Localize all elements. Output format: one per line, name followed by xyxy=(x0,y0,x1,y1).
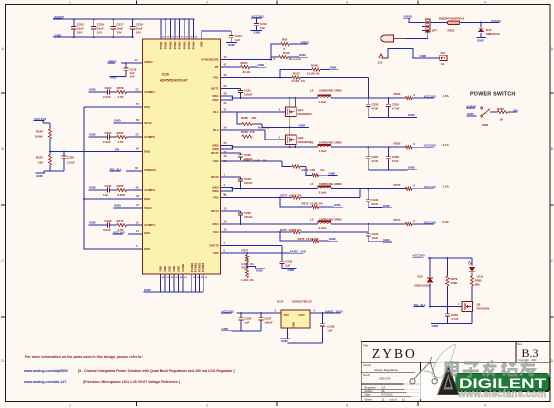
svg-text:R261: R261 xyxy=(448,29,455,33)
resistor R265 0 to VCC3V0 2.1A xyxy=(394,141,450,148)
capacitor C214 1uF xyxy=(226,31,242,47)
svg-text:2.3nF: 2.3nF xyxy=(103,95,111,99)
svg-text:R269: R269 xyxy=(117,184,124,188)
svg-text:47uF: 47uF xyxy=(372,159,379,163)
svg-text:GND: GND xyxy=(159,266,163,272)
svg-text:10uF: 10uF xyxy=(372,236,379,240)
svg-text:1uF: 1uF xyxy=(327,328,332,332)
svg-text:VIN: VIN xyxy=(284,313,289,317)
svg-text:GND: GND xyxy=(408,113,416,117)
node XADC_1V25 output xyxy=(310,309,343,314)
svg-text:8.87K: 8.87K xyxy=(118,193,127,197)
capacitor C233 3.9nF on COMP4 xyxy=(89,219,112,232)
capacitor C234 10uF xyxy=(366,224,392,242)
svg-text:BST2: BST2 xyxy=(211,151,219,155)
svg-text:11: 11 xyxy=(402,398,405,402)
svg-text:680: 680 xyxy=(475,283,480,287)
resistor R273 4.7K to COMP4 pin 15 xyxy=(110,219,143,232)
svg-text:GND: GND xyxy=(89,87,97,91)
svg-text:Power Regulation: Power Regulation xyxy=(375,368,399,372)
resistor R275 12.7K 1% FB4 sense xyxy=(221,224,369,234)
svg-text:R157: R157 xyxy=(293,72,300,76)
capacitor C224 2.3nF on COMP2 xyxy=(89,131,112,144)
diode D13 SMBJ5.0A xyxy=(477,23,502,43)
node VCC3V3 VDD supply xyxy=(251,14,264,23)
svg-text:22uF: 22uF xyxy=(372,202,379,206)
svg-text:VU5V2: VU5V2 xyxy=(491,19,501,23)
ground VCC3V3 caps xyxy=(368,113,417,117)
svg-text:47uF: 47uF xyxy=(372,107,379,111)
resistor R272 10.2K 1% to GND xyxy=(280,198,343,209)
svg-text:C230: C230 xyxy=(105,184,112,188)
svg-text:3.9nF: 3.9nF xyxy=(103,228,111,232)
svg-text:GND: GND xyxy=(420,54,428,58)
resistor R112 0 No Load to GND xyxy=(271,51,308,61)
svg-text:www.analog.com/adr-127: www.analog.com/adr-127 xyxy=(23,380,66,384)
svg-text:10V: 10V xyxy=(77,30,82,34)
svg-text:BST4: BST4 xyxy=(211,209,219,213)
svg-text:GND: GND xyxy=(292,322,296,328)
transistor Q1A FDS9926A xyxy=(286,98,313,117)
svg-text:4.7K: 4.7K xyxy=(118,95,125,99)
capacitor C237 100nF xyxy=(259,313,273,331)
svg-text:PGND4: PGND4 xyxy=(201,262,205,272)
svg-text:GND: GND xyxy=(467,112,475,116)
watermark chinese characters xyxy=(446,361,535,378)
svg-text:1.5uH: 1.5uH xyxy=(319,100,327,104)
svg-text:BST1: BST1 xyxy=(211,87,219,91)
resistor R269 8.87K to COMP3 pin 46 xyxy=(110,184,143,197)
svg-text:GND: GND xyxy=(89,220,97,224)
wire SYNC/MODE pin 43 node xyxy=(221,44,282,60)
resistor R258 4.7K to COMP1 pin 23 xyxy=(110,86,143,99)
capacitor C238 1uF xyxy=(288,313,335,343)
svg-text:10V: 10V xyxy=(136,30,141,34)
svg-text:Sheet: Sheet xyxy=(365,398,373,402)
wire DL1 pin 31 to Q1A gate xyxy=(221,108,286,113)
svg-text:R259: R259 xyxy=(394,92,401,96)
svg-text:ADP5052ACPZ-R7: ADP5052ACPZ-R7 xyxy=(160,79,188,83)
inductor L2 1.5uH xyxy=(310,89,342,104)
svg-text:1uF: 1uF xyxy=(260,26,265,30)
svg-text:4.7K: 4.7K xyxy=(118,140,125,144)
svg-text:2.2nF: 2.2nF xyxy=(67,161,75,165)
svg-text:10V: 10V xyxy=(116,30,121,34)
svg-text:EN2: EN2 xyxy=(144,150,150,154)
svg-text:GND: GND xyxy=(114,118,122,122)
svg-text:PGND3: PGND3 xyxy=(197,262,201,272)
node PG_ALL gate wire xyxy=(414,303,463,308)
capacitor C235 1uF xyxy=(280,253,297,272)
ground indicator circuit xyxy=(431,324,472,328)
svg-text:Date: Date xyxy=(365,393,371,397)
node PG_ALL on PWRGD pin 30 xyxy=(110,166,143,171)
svg-text:10.2K 1%: 10.2K 1% xyxy=(307,71,320,75)
logo triangle mark xyxy=(438,366,459,395)
svg-text:VOUT5: VOUT5 xyxy=(209,244,219,248)
svg-text:C226: C226 xyxy=(67,156,74,160)
svg-text:FDS9926A: FDS9926A xyxy=(298,112,313,116)
svg-text:2: 2 xyxy=(206,0,208,4)
svg-text:1uF: 1uF xyxy=(103,193,108,197)
svg-text:GND: GND xyxy=(477,38,485,42)
svg-text:R270: R270 xyxy=(394,183,401,187)
wire VOUT5 pin 7 xyxy=(221,241,283,253)
resistor R279 100K xyxy=(446,258,458,307)
svg-text:VCC3V3: VCC3V3 xyxy=(222,309,234,313)
capacitor C232 100nF on BST4 xyxy=(221,207,253,225)
inductor L3 1.5uH xyxy=(310,141,342,153)
svg-text:R264: R264 xyxy=(36,130,43,134)
svg-text:IC27: IC27 xyxy=(277,300,284,304)
svg-text:PVIN1: PVIN1 xyxy=(164,41,168,49)
IC IC26 ADP5052ACPZ-R7 quad buck regulator xyxy=(142,39,220,274)
svg-text:100nF: 100nF xyxy=(244,93,253,97)
ground J15 shield xyxy=(378,48,437,64)
svg-text:COMP4: COMP4 xyxy=(144,223,155,227)
svg-text:DL2: DL2 xyxy=(213,128,219,132)
wire Q1 midpoint to GND xyxy=(262,117,309,129)
resistor R262 47K on DL2 pin 29 xyxy=(221,126,286,140)
svg-text:R273: R273 xyxy=(117,219,124,223)
wire L2 output to VCC3V3 xyxy=(331,97,405,99)
svg-text:4.7uF: 4.7uF xyxy=(451,317,459,321)
ground SS34 pin 47 xyxy=(114,203,143,208)
svg-text:3: 3 xyxy=(346,404,348,408)
svg-text:OUT: OUT xyxy=(299,313,306,317)
svg-text:PGND2: PGND2 xyxy=(194,262,198,272)
svg-text:EN: EN xyxy=(115,147,119,151)
watermark compass ghost xyxy=(404,344,457,400)
capacitor C236 1uF xyxy=(239,313,252,331)
svg-text:VDD: VDD xyxy=(200,41,204,47)
svg-text:FB5: FB5 xyxy=(213,251,219,255)
wire SW3 switch node xyxy=(221,183,318,196)
switch SW6 power switch xyxy=(466,104,498,127)
svg-text:500-279: 500-279 xyxy=(379,377,390,381)
svg-text:4: 4 xyxy=(484,404,486,408)
svg-text:GND: GND xyxy=(329,237,337,241)
connector J16 net tie xyxy=(437,51,447,66)
svg-text:GND: GND xyxy=(281,339,289,343)
svg-text:PVIN3: PVIN3 xyxy=(178,41,182,49)
svg-text:R112: R112 xyxy=(283,51,290,55)
svg-text:GND: GND xyxy=(222,327,230,331)
svg-text:R272 10.2K 1%: R272 10.2K 1% xyxy=(302,202,324,206)
svg-text:Doc#: Doc# xyxy=(363,373,370,377)
svg-text:R260 47K: R260 47K xyxy=(241,116,257,120)
svg-text:BST3: BST3 xyxy=(211,175,219,179)
wire L4 output to VCC1V5 xyxy=(331,188,405,190)
svg-text:D15: D15 xyxy=(418,274,424,278)
svg-text:R263: R263 xyxy=(497,107,504,111)
resistor R276 10.2K 1% to GND xyxy=(280,232,338,243)
svg-text:out of: out of xyxy=(390,398,397,402)
svg-text:100nF: 100nF xyxy=(264,320,273,324)
svg-text:FDV301N: FDV301N xyxy=(477,307,490,311)
wire L5 output to VCC1V8 xyxy=(331,223,405,225)
svg-text:AGND: AGND xyxy=(181,264,185,272)
svg-text:1k: 1k xyxy=(441,62,445,66)
svg-text:1: 1 xyxy=(69,0,71,4)
capacitor C213 1uF xyxy=(251,22,268,35)
logo green banner xyxy=(456,373,550,392)
capacitor C230 1uF on COMP3 xyxy=(89,184,112,197)
capacitor C218 10uF 10V xyxy=(130,18,143,38)
svg-text:10K: 10K xyxy=(38,161,44,165)
svg-text:GND: GND xyxy=(254,31,262,35)
connector J15 shell to JP7 xyxy=(381,32,428,42)
svg-text:R277: R277 xyxy=(242,248,249,252)
svg-text:2.3nF: 2.3nF xyxy=(103,140,111,144)
svg-text:100K: 100K xyxy=(451,281,459,285)
svg-text:1.5uH: 1.5uH xyxy=(319,149,327,153)
svg-text:PVIN2: PVIN2 xyxy=(173,41,177,49)
svg-text:EN5: EN5 xyxy=(144,247,150,251)
wire VREG to pin 44 xyxy=(108,58,143,68)
capacitor C231 22uF xyxy=(366,189,392,208)
svg-text:CDBU0230L: CDBU0230L xyxy=(414,284,431,288)
svg-text:SS12: SS12 xyxy=(144,121,152,125)
wire SW2 switch node xyxy=(221,141,318,154)
svg-text:R255: R255 xyxy=(241,61,248,65)
svg-text:SMBJ5.0A: SMBJ5.0A xyxy=(486,32,501,36)
node VCC3V3 reference rail xyxy=(221,309,281,314)
svg-text:SW6: SW6 xyxy=(482,123,489,127)
wire VDD pin to VCC3V3 xyxy=(202,31,232,39)
wire EN1/EN2/EN3/EN5 enable bus xyxy=(83,102,142,249)
svg-text:SW4: SW4 xyxy=(212,222,219,226)
svg-text:GND: GND xyxy=(89,132,97,136)
wire PVIN pin stubs to VU5V0 rail xyxy=(160,18,198,39)
svg-text:COMP1: COMP1 xyxy=(144,90,155,94)
svg-text:GND: GND xyxy=(383,204,391,208)
node VBUS xyxy=(403,15,422,23)
svg-text:DL1: DL1 xyxy=(213,110,219,114)
node XADC_1V8 on FB5 pin 6 xyxy=(221,249,306,254)
resistor R280 680 xyxy=(470,272,482,301)
svg-text:VREG: VREG xyxy=(144,60,153,64)
svg-text:FB1: FB1 xyxy=(213,76,219,80)
svg-text:RT: RT xyxy=(215,65,219,69)
svg-text:SYNC/MODE: SYNC/MODE xyxy=(201,58,219,62)
svg-text:L2: L2 xyxy=(310,89,314,93)
svg-text:47uF: 47uF xyxy=(392,159,399,163)
ground divider bottom xyxy=(36,171,65,178)
svg-text:GND: GND xyxy=(114,203,122,207)
resistor R267 10K xyxy=(36,152,52,172)
node VCC1V8 divider top xyxy=(34,117,51,129)
svg-text:2: 2 xyxy=(206,404,208,408)
svg-text:2.1A: 2.1A xyxy=(443,143,450,147)
svg-text:PG_ALL: PG_ALL xyxy=(414,303,426,307)
svg-text:GND: GND xyxy=(432,324,440,328)
svg-text:B: B xyxy=(551,147,553,151)
inductor L4 3.3uH xyxy=(310,182,342,194)
resistor R266 2.49K 1% on FB2 xyxy=(221,159,307,169)
svg-text:ADR127BUJZ: ADR127BUJZ xyxy=(292,300,312,304)
resistor R263 4.7K to COMP2 pin 22 xyxy=(110,131,143,144)
svg-text:SW1: SW1 xyxy=(212,98,219,102)
svg-text:J15: J15 xyxy=(378,60,383,64)
inductor L5 3.3uH xyxy=(310,217,342,229)
svg-text:1uF: 1uF xyxy=(244,320,249,324)
svg-text:L5: L5 xyxy=(310,217,314,221)
svg-text:GND: GND xyxy=(408,166,416,170)
svg-text:PGND1: PGND1 xyxy=(190,262,194,272)
ground SS12 pin 58 xyxy=(114,118,143,123)
svg-text:PVIN4: PVIN4 xyxy=(192,41,196,49)
svg-text:R92: R92 xyxy=(282,38,288,42)
svg-text:GND: GND xyxy=(172,266,176,272)
svg-text:R258: R258 xyxy=(117,86,124,90)
svg-text:GND: GND xyxy=(163,266,167,272)
resistor R246 10.2K 1% to GND xyxy=(280,64,339,78)
svg-text:10V: 10V xyxy=(97,30,102,34)
capacitor C227 47uF xyxy=(366,147,379,170)
svg-text:D6035PV350F/3D-2: D6035PV350F/3D-2 xyxy=(439,16,465,20)
resistor R92 0 to VREG xyxy=(281,38,310,51)
node VCC3V3 indicator rail xyxy=(412,254,472,259)
capacitor C228 47uF xyxy=(386,147,399,170)
svg-text:SW3: SW3 xyxy=(212,189,219,193)
svg-text:R274: R274 xyxy=(394,218,401,222)
svg-text:www.analog.com/adp5052: www.analog.com/adp5052 xyxy=(23,369,68,373)
svg-text:EN1: EN1 xyxy=(144,105,150,109)
svg-text:0.6A: 0.6A xyxy=(443,220,450,224)
svg-text:For more information on the pa: For more information on the parts used i… xyxy=(25,355,143,359)
svg-text:GND: GND xyxy=(144,288,152,292)
svg-text:3.3uH: 3.3uH xyxy=(319,226,327,230)
resistor R157 31.6K 1% FB1 sense wire xyxy=(221,72,369,99)
svg-text:5/7/2013: 5/7/2013 xyxy=(382,393,393,397)
diode LD11 power good LED xyxy=(468,258,484,279)
svg-text:GND: GND xyxy=(256,268,264,272)
svg-text:EN3: EN3 xyxy=(144,197,150,201)
capacitor C219 1uF 10V xyxy=(110,67,137,79)
svg-text:GND: GND xyxy=(299,53,307,57)
svg-text:GND: GND xyxy=(228,43,236,47)
svg-text:GND: GND xyxy=(329,171,337,175)
svg-text:PVIN4: PVIN4 xyxy=(187,41,191,49)
resistor R259 0 to VCC3V3 1.5A xyxy=(394,92,450,99)
resistor R255 30.1K on RT pin 41 xyxy=(221,61,267,74)
note adr127 link xyxy=(23,380,180,384)
wire divider mid node to EN bus xyxy=(49,151,84,153)
wire SW1 switch node xyxy=(221,92,318,105)
svg-text:4.7uF: 4.7uF xyxy=(392,107,400,111)
svg-text:B.3: B.3 xyxy=(522,346,539,360)
diode D15 CDBU0230L xyxy=(414,258,433,307)
svg-text:R265: R265 xyxy=(394,141,401,145)
transistor Q2 FDV301N xyxy=(458,302,489,324)
capacitor C222 47uF xyxy=(366,98,379,118)
svg-text:L3: L3 xyxy=(310,141,314,145)
svg-text:EN4: EN4 xyxy=(144,231,150,235)
ground IC27 pin 2 xyxy=(281,328,291,343)
resistor R268 10K 1% to GND xyxy=(302,167,338,177)
svg-text:GND: GND xyxy=(168,266,172,272)
svg-text:FB2: FB2 xyxy=(213,159,219,163)
capacitor C229 4.7uF xyxy=(386,98,399,118)
svg-text:C220: C220 xyxy=(105,86,112,90)
node GND rail of cap bank xyxy=(53,33,133,37)
svg-text:L4: L4 xyxy=(310,182,314,186)
svg-text:PVIN1: PVIN1 xyxy=(159,41,163,49)
capacitor C226 2.2nF xyxy=(62,152,75,172)
svg-text:R246: R246 xyxy=(311,64,318,68)
svg-text:GND: GND xyxy=(334,203,342,207)
node VU5V0 input rail xyxy=(53,15,195,19)
svg-text:Title: Title xyxy=(363,343,369,347)
svg-text:1.31K 1%: 1.31K 1% xyxy=(241,278,254,282)
svg-text:3.3uH: 3.3uH xyxy=(319,191,327,195)
svg-text:R263: R263 xyxy=(117,131,124,135)
svg-text:C233: C233 xyxy=(105,219,112,223)
svg-text:1: 1 xyxy=(69,404,71,408)
svg-text:R275 12.7K 1%: R275 12.7K 1% xyxy=(280,228,302,232)
resistor R261 fuse to VU5V2 xyxy=(430,16,501,32)
svg-text:[5 - Channel Integrated Power: [5 - Channel Integrated Power Solution w… xyxy=(78,369,235,373)
wire L3 output to VCC3V0 xyxy=(331,146,405,148)
svg-text:1NR5040E-1R5N: 1NR5040E-1R5N xyxy=(319,89,342,93)
svg-text:(Precision, Micropower LDO 1.2: (Precision, Micropower LDO 1.25 VOUT Vol… xyxy=(83,380,180,384)
svg-text:30.1K: 30.1K xyxy=(243,70,252,74)
svg-text:4: 4 xyxy=(484,0,486,4)
svg-text:POWER SWITCH: POWER SWITCH xyxy=(470,91,516,97)
svg-text:11: 11 xyxy=(382,398,385,402)
capacitor C225 100nF on BST2 xyxy=(221,153,253,161)
resistor R260 47K No Load xyxy=(237,112,270,130)
svg-text:J16: J16 xyxy=(440,51,445,55)
svg-text:GND: GND xyxy=(383,238,391,242)
capacitor C221 100nF on BST1 pin 52 xyxy=(221,84,253,98)
title block xyxy=(361,342,550,402)
svg-text:R278: R278 xyxy=(242,265,249,269)
logo DIGILENT text xyxy=(459,376,547,391)
svg-text:PVIN2: PVIN2 xyxy=(168,41,172,49)
resistor R278 1.31K 1% to GND xyxy=(241,262,265,282)
svg-text:GND: GND xyxy=(55,33,63,37)
svg-text:Circuit: Circuit xyxy=(363,363,371,367)
svg-text:SS34: SS34 xyxy=(144,206,152,210)
svg-text:B: B xyxy=(2,147,4,151)
svg-text:R262 47K: R262 47K xyxy=(241,130,256,134)
svg-text:FB3: FB3 xyxy=(213,196,219,200)
capacitor C216 10uF 10V xyxy=(91,18,104,38)
svg-text:COMP3: COMP3 xyxy=(144,188,155,192)
resistor R263 1K to EN xyxy=(497,107,518,121)
node POWER SWITCH heading xyxy=(470,91,516,97)
resistor R274 0 to VCC1V8 0.6A xyxy=(394,218,450,225)
svg-text:1.5A: 1.5A xyxy=(443,94,450,98)
capacitor C215 10uF 10V xyxy=(71,18,84,38)
watermark elecfans url xyxy=(457,388,546,400)
note heading text xyxy=(25,355,143,359)
svg-text:JP7: JP7 xyxy=(432,29,438,33)
svg-text:1uF: 1uF xyxy=(235,38,240,42)
svg-text:3: 3 xyxy=(346,0,348,4)
svg-text:IC26: IC26 xyxy=(162,73,169,77)
svg-text:PVIN3: PVIN3 xyxy=(182,41,186,49)
svg-text:VCC3V3: VCC3V3 xyxy=(413,254,425,258)
ground reference caps xyxy=(221,327,261,331)
resistor R264 8.06K xyxy=(35,129,52,152)
svg-text:No Load: No Load xyxy=(289,57,301,61)
svg-text:1.2A: 1.2A xyxy=(443,185,450,189)
svg-text:VBUS: VBUS xyxy=(404,15,413,19)
svg-text:GND: GND xyxy=(89,185,97,189)
